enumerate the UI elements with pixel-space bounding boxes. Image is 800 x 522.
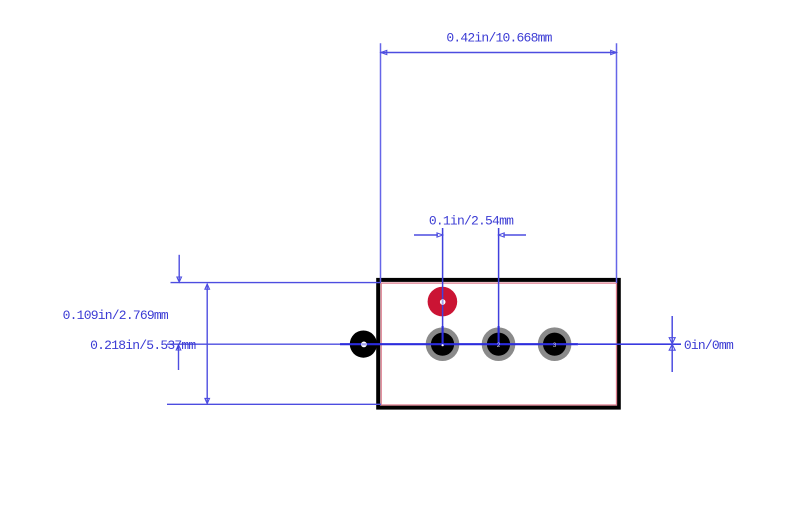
dim 0.42in left extension line: [380, 43, 382, 282]
dim 0.1in left extension line (through pin 1): [442, 228, 444, 346]
svg-text:0in/0mm: 0in/0mm: [684, 338, 734, 353]
mounting hole drill: [361, 342, 367, 348]
pin 1 pad drill: [440, 299, 446, 305]
pad 1: [426, 327, 460, 361]
svg-text:0.218in/5.537mm: 0.218in/5.537mm: [90, 338, 196, 353]
dim 0.1in left arrow: [414, 233, 443, 237]
pad row center line: [167, 343, 681, 345]
top edge extension line: [171, 282, 382, 284]
dim 0.42in dimension line: [381, 50, 617, 54]
dim 0.109in lower leader: [176, 345, 181, 370]
dim 0in bowtie arrows: [669, 338, 675, 351]
pad 1 center mark: [442, 344, 444, 346]
svg-text:0.109in/2.769mm: 0.109in/2.769mm: [63, 308, 169, 323]
dim 0in vertical line: [671, 316, 673, 372]
courtyard outline (pink): [381, 283, 616, 405]
svg-text:0.42in/10.668mm: 0.42in/10.668mm: [446, 31, 552, 46]
svg-text:3: 3: [553, 342, 557, 349]
svg-text:2: 2: [497, 342, 501, 349]
pin 1 pad (red): [428, 287, 458, 317]
dim 0.1in right arrow: [499, 233, 526, 237]
pad 3: [538, 327, 572, 361]
dim 0.218in dimension line: [205, 284, 210, 404]
mounting hole: [350, 331, 377, 358]
dim 0.1in right extension line (through pad 2): [498, 228, 500, 346]
bottom edge extension line: [167, 403, 381, 405]
dim 0.42in right extension line: [616, 43, 618, 283]
svg-text:0.1in/2.54mm: 0.1in/2.54mm: [429, 214, 514, 229]
component body outline: [378, 280, 619, 408]
dim 0.109in upper leader: [177, 255, 182, 282]
pad 2: [482, 327, 516, 361]
